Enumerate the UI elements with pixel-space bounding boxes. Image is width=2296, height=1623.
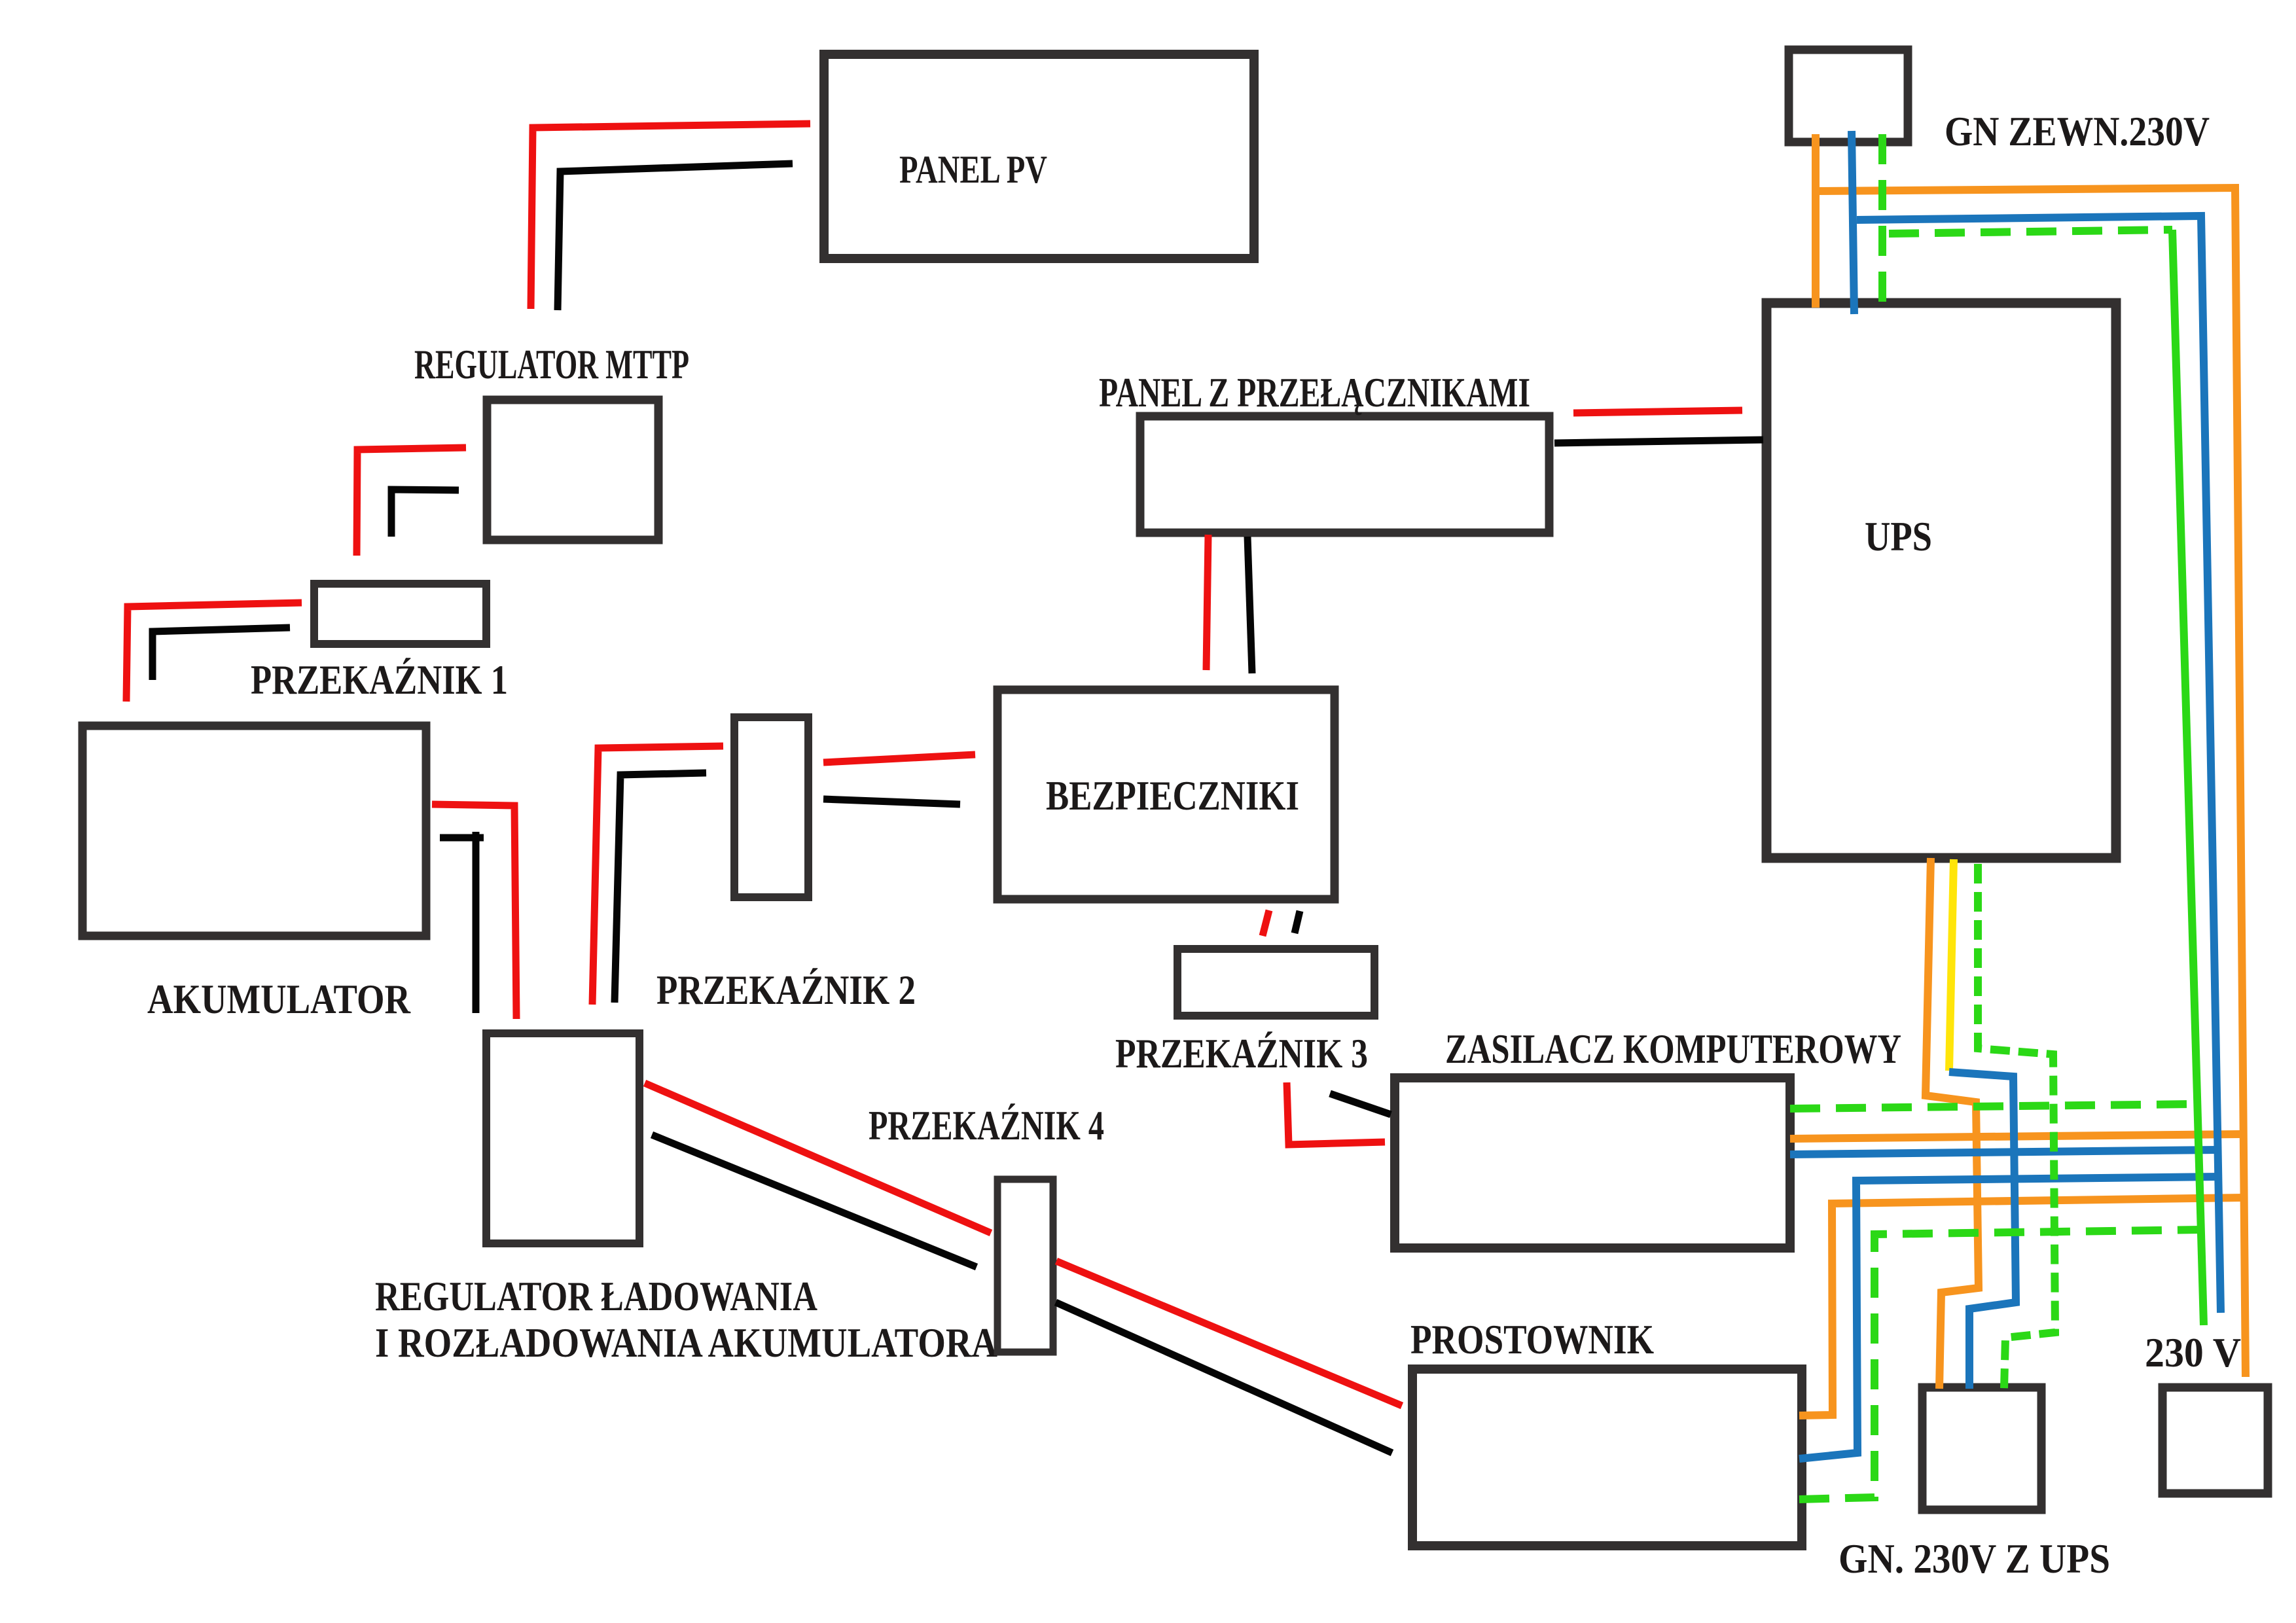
svg-text:PRZEKAŹNIK 2: PRZEKAŹNIK 2 — [656, 967, 916, 1013]
wire black PANEL Z PRZELACZNIKAMI to UPS — [1554, 440, 1763, 443]
wire orange GN ZEWN to UPS — [1812, 134, 1820, 308]
svg-text:REGULATOR MTTP: REGULATOR MTTP — [414, 341, 689, 387]
wire green solid right vertical — [2172, 230, 2204, 1325]
wire red PRZEKAZNIK 1 to AKUMULATOR — [126, 603, 302, 702]
svg-text:ZASILACZ KOMPUTEROWY: ZASILACZ KOMPUTEROWY — [1445, 1026, 1901, 1072]
wire black PRZEKAZNIK 2 to BEZPIECZNIKI — [823, 799, 960, 804]
svg-text:PRZEKAŹNIK 4: PRZEKAŹNIK 4 — [869, 1102, 1104, 1149]
box GN. 230V Z UPS — [1922, 1387, 2041, 1510]
wire red REGULATOR MTTP to PRZEKAZNIK 1 — [357, 448, 466, 556]
wire blue GN ZEWN to UPS — [1852, 131, 1854, 314]
wire black PRZEKAZNIK 3 to ZASILACZ — [1330, 1094, 1391, 1115]
box BEZPIECZNIKI — [997, 690, 1335, 899]
svg-text:230 V: 230 V — [2145, 1329, 2241, 1376]
wire orange GN ZEWN branch right vertical to 230V box — [1816, 188, 2246, 1377]
wire red PANEL PV to REGULATOR MTTP — [531, 124, 810, 309]
box PANEL PV — [824, 54, 1254, 259]
svg-text:PANEL PV: PANEL PV — [899, 148, 1047, 191]
wire red AKUMULATOR to REGULATOR LADOWANIA — [432, 804, 516, 1019]
wire black REGULATOR LADOWANIA to PRZEKAZNIK 4 — [652, 1135, 977, 1267]
box PRZEKAZNIK 4 — [997, 1179, 1053, 1352]
wire black PRZEKAZNIK 1 to AKUMULATOR — [152, 628, 290, 680]
wire orange PROSTOWNIK to right vertical — [1799, 1198, 2244, 1416]
wire red PANEL Z PRZELACZNIKAMI to UPS — [1573, 410, 1742, 413]
box ZASILACZ KOMPUTEROWY — [1395, 1078, 1790, 1248]
wire black PANEL Z PRZELACZNIKAMI to BEZPIECZNIKI — [1247, 537, 1252, 673]
svg-text:PRZEKAŹNIK 3: PRZEKAŹNIK 3 — [1115, 1030, 1368, 1077]
wire black BEZPIECZNIKI to PRZEKAZNIK 3 — [1295, 911, 1300, 933]
box AKUMULATOR — [82, 726, 426, 936]
wire blue PROSTOWNIK to right vertical — [1799, 1177, 2219, 1459]
wire red PRZEKAZNIK 2 to BEZPIECZNIKI — [823, 755, 975, 762]
svg-text:PANEL Z PRZEŁĄCZNIKAMI: PANEL Z PRZEŁĄCZNIKAMI — [1099, 369, 1530, 416]
wire black PANEL PV to REGULATOR MTTP — [558, 164, 793, 310]
wire green dashed ZASILACZ to right vertical — [1790, 1104, 2197, 1109]
svg-text:REGULATOR ŁADOWANIA: REGULATOR ŁADOWANIA — [375, 1273, 817, 1319]
svg-text:I ROZŁADOWANIA AKUMULATORA: I ROZŁADOWANIA AKUMULATORA — [375, 1319, 997, 1366]
svg-text:AKUMULATOR: AKUMULATOR — [147, 976, 411, 1022]
wire red PRZEKAZNIK 4 to PROSTOWNIK — [1056, 1261, 1402, 1406]
wire red PANEL Z PRZELACZNIKAMI to BEZPIECZNIKI — [1206, 535, 1208, 670]
box PRZEKAZNIK 2 — [734, 717, 808, 897]
wire black REGULATOR MTTP to PRZEKAZNIK 1 — [391, 490, 459, 537]
wire black PRZEKAZNIK 4 to PROSTOWNIK — [1056, 1302, 1392, 1453]
box PRZEKAZNIK 3 — [1177, 949, 1374, 1016]
box GN ZEWN.230V — [1789, 50, 1908, 142]
wire yellow UPS stub — [1949, 859, 1954, 1071]
wire black AKUMULATOR tick — [440, 834, 484, 842]
wire green dashed UPS to GN 230V Z UPS — [1978, 864, 2055, 1389]
wire green dashed GN ZEWN branch horizontal — [1889, 230, 2172, 234]
wire green dashed PROSTOWNIK to right vertical — [1799, 1230, 2200, 1499]
wire red PRZEKAZNIK 3 to ZASILACZ — [1287, 1082, 1385, 1145]
wire black PRZEKAZNIK 2 to REGULATOR LADOWANIA — [615, 773, 706, 1003]
svg-text:GN ZEWN.230V: GN ZEWN.230V — [1945, 108, 2210, 154]
wire blue GN ZEWN branch right vertical — [1857, 216, 2221, 1313]
svg-text:PROSTOWNIK: PROSTOWNIK — [1410, 1316, 1654, 1363]
box PANEL Z PRZELACZNIKAMI — [1140, 416, 1549, 533]
svg-text:GN. 230V Z UPS: GN. 230V Z UPS — [1839, 1535, 2110, 1582]
svg-text:PRZEKAŹNIK 1: PRZEKAŹNIK 1 — [251, 656, 508, 703]
box UPS — [1767, 303, 2116, 858]
box PROSTOWNIK — [1412, 1369, 1802, 1546]
wire blue continuation of yellow to GN 230V Z UPS — [1949, 1072, 2016, 1389]
wire orange UPS to GN 230V Z UPS — [1926, 858, 1979, 1389]
box 230 V — [2162, 1387, 2268, 1493]
box REGULATOR LADOWANIA — [486, 1033, 639, 1243]
svg-text:UPS: UPS — [1865, 513, 1932, 560]
wire orange ZASILACZ to right vertical — [1790, 1134, 2241, 1139]
box REGULATOR MTTP — [487, 400, 658, 540]
wire green dashed GN ZEWN to UPS — [1878, 134, 1886, 308]
wire black AKUMULATOR to REGULATOR LADOWANIA — [473, 832, 480, 1013]
wire blue ZASILACZ to right vertical — [1790, 1150, 2217, 1154]
wire red BEZPIECZNIKI to PRZEKAZNIK 3 — [1263, 910, 1269, 936]
wire red REGULATOR LADOWANIA to PRZEKAZNIK 4 — [645, 1083, 991, 1233]
svg-text:BEZPIECZNIKI: BEZPIECZNIKI — [1046, 772, 1299, 819]
wire red PRZEKAZNIK 2 to REGULATOR LADOWANIA — [592, 746, 723, 1005]
box PRZEKAZNIK 1 — [314, 584, 486, 644]
